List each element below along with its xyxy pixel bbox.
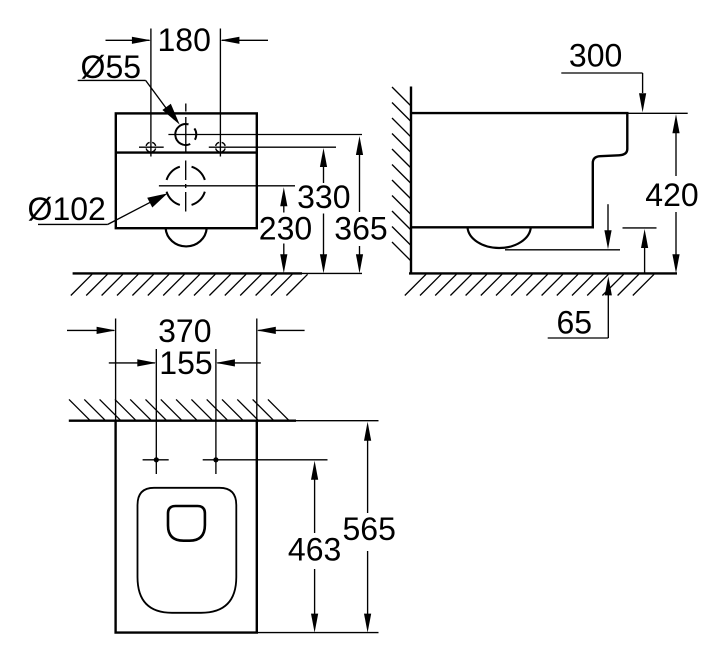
side outlet arc	[468, 227, 531, 248]
side ground hatching	[405, 274, 654, 295]
plan bottom extension line	[257, 632, 379, 634]
dim 180 right extension line	[219, 29, 221, 157]
seat outer outline	[138, 488, 237, 613]
svg-text:230: 230	[259, 211, 312, 247]
dim 365 line	[356, 136, 363, 273]
svg-text:365: 365	[334, 210, 387, 246]
dim 180 label	[158, 22, 211, 58]
side profile	[411, 113, 627, 227]
svg-text:420: 420	[645, 177, 698, 213]
right fixing hole line / 330 reference line	[209, 146, 336, 148]
dim 420 label	[645, 177, 698, 213]
outlet depth down arrow	[604, 204, 611, 249]
dim 370 label	[158, 313, 211, 349]
front ground hatching	[71, 274, 308, 295]
label D102 leader	[38, 193, 168, 224]
dim 155 label	[159, 345, 212, 381]
svg-text:180: 180	[158, 22, 211, 58]
right bolt line / 463 reference line	[203, 459, 328, 461]
side wall line	[410, 87, 412, 274]
dim 463 label	[288, 532, 341, 568]
plan wall line	[69, 420, 379, 422]
label D102	[28, 191, 106, 227]
plan wall hatching	[69, 399, 289, 420]
left fixing hole	[139, 142, 164, 151]
front ground line	[73, 272, 362, 274]
dim 370 right arrow+tail	[257, 327, 305, 334]
svg-text:300: 300	[569, 38, 622, 74]
bottom edge extension line	[623, 227, 657, 229]
right bolt point	[213, 457, 218, 462]
dim 565 label	[343, 511, 396, 547]
top edge extension line	[627, 112, 687, 114]
outlet bottom reference line	[505, 249, 620, 251]
svg-text:65: 65	[557, 305, 593, 341]
outlet hole circle D102	[167, 167, 205, 205]
front view body outline	[116, 113, 257, 228]
side ground line	[409, 272, 677, 274]
left bolt point	[143, 457, 169, 462]
dim 180 right arrow+tail	[220, 37, 268, 44]
dim 565 line	[364, 422, 371, 633]
dim 330 line	[320, 148, 327, 273]
svg-text:370: 370	[158, 313, 211, 349]
label D55	[81, 49, 141, 85]
svg-text:463: 463	[288, 532, 341, 568]
dim 155 left extension / left bolt centerline	[155, 349, 157, 474]
dim 300 leader	[561, 73, 646, 112]
dim 300 label	[569, 38, 622, 74]
front view cistern separation line	[116, 151, 257, 153]
dim 370 left extension	[115, 319, 117, 421]
dim 370 left arrow+tail	[67, 327, 116, 334]
dim 463 line	[311, 461, 318, 633]
dim 155 left arrow+tail	[109, 359, 157, 366]
svg-text:155: 155	[159, 345, 212, 381]
D102 vertical centerline	[185, 161, 187, 212]
dim 230 line	[280, 187, 287, 273]
dim 155 right arrow+tail	[216, 359, 261, 366]
D55 vertical centerline	[185, 104, 187, 152]
dim 180 left arrow+tail	[106, 37, 151, 44]
plan body outline	[116, 421, 257, 633]
svg-text:Ø102: Ø102	[28, 191, 106, 227]
dim 420 line	[672, 114, 679, 273]
D55 horizontal centerline / 365 reference line	[168, 134, 362, 136]
right fixing hole	[216, 142, 225, 151]
svg-text:565: 565	[343, 511, 396, 547]
dim 65 leader	[548, 276, 612, 338]
dim 330 label	[297, 179, 350, 215]
dim 180 left extension line	[150, 29, 152, 157]
front view outlet arc	[166, 228, 207, 246]
dim 365 label	[334, 210, 387, 246]
seat inner opening	[168, 506, 205, 541]
bottom edge up arrow	[641, 229, 648, 273]
label D55 leader	[78, 80, 180, 124]
D102 horizontal centerline / 230 reference line	[159, 185, 295, 187]
inlet hole circle D55	[175, 124, 196, 145]
svg-text:Ø55: Ø55	[81, 49, 141, 85]
dim 155 right extension / right bolt centerline	[215, 349, 217, 474]
dim 65 label	[557, 305, 593, 341]
side wall hatching	[392, 87, 411, 261]
dim 230 label	[259, 211, 312, 247]
dim 370 right extension	[256, 319, 258, 421]
